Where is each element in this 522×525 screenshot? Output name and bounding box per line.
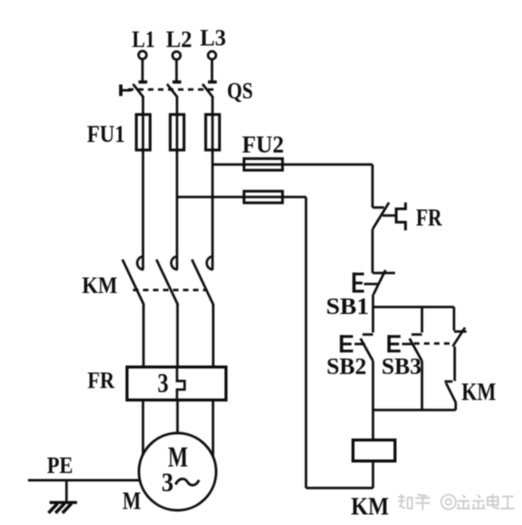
terminal L3 bbox=[208, 51, 216, 59]
coil KM bbox=[353, 440, 395, 461]
contactor auxiliary contact KM bbox=[445, 382, 457, 411]
switch QS handle bbox=[121, 85, 132, 97]
svg-text:PE: PE bbox=[47, 453, 73, 478]
terminal L2 bbox=[173, 52, 181, 60]
wire phase2 FU1 to KM bbox=[176, 150, 179, 270]
motor M circle bbox=[139, 433, 216, 510]
dashed mechanical link SB3 bbox=[414, 342, 451, 345]
thermal relay FR heater element bbox=[177, 367, 185, 400]
wire FU2 branch 1 bbox=[213, 163, 373, 166]
svg-text:FU1: FU1 bbox=[87, 122, 125, 148]
switch QS pole 1 bbox=[133, 82, 147, 115]
wire SB1 to branch node bbox=[372, 295, 375, 308]
wire FU2 branch 2 bbox=[177, 196, 306, 199]
thermal relay contact FR bbox=[373, 203, 406, 231]
svg-text:L3: L3 bbox=[200, 26, 226, 51]
pushbutton SB1 bbox=[353, 270, 396, 295]
wire phase3 FU1 to KM bbox=[211, 150, 214, 270]
svg-text:QS: QS bbox=[227, 79, 253, 104]
wire bottom return bbox=[306, 487, 373, 490]
svg-text:SB2: SB2 bbox=[327, 354, 367, 379]
pushbutton SB2 bbox=[340, 307, 373, 361]
ground bbox=[49, 480, 78, 513]
pushbutton SB3 bbox=[388, 307, 423, 361]
wire phase2 box to motor bbox=[176, 400, 179, 434]
fuse FU1 pole 3 bbox=[206, 115, 220, 151]
svg-text:L1: L1 bbox=[132, 27, 155, 52]
wire SB2 to coil bbox=[372, 361, 375, 440]
contactor KM pole 1 bbox=[122, 256, 144, 367]
svg-text:SB1: SB1 bbox=[326, 294, 369, 319]
wire bottom parallel join bbox=[373, 409, 456, 412]
switch QS pole 3 bbox=[203, 82, 217, 115]
watermark 知乎 @点点电工 bbox=[398, 494, 515, 510]
terminal L1 bbox=[139, 51, 147, 59]
svg-text:FR: FR bbox=[88, 368, 115, 393]
svg-text:FU2: FU2 bbox=[242, 133, 284, 159]
switch QS dashed linkage bbox=[128, 88, 218, 91]
svg-text:SB3: SB3 bbox=[382, 354, 422, 379]
wire phase1 FU1 to KM bbox=[142, 150, 145, 270]
switch QS pole 2 bbox=[167, 82, 181, 115]
svg-text:KM: KM bbox=[462, 379, 497, 406]
svg-text:KM: KM bbox=[351, 494, 389, 521]
wire coil to return bbox=[372, 461, 375, 488]
wire SB3 lower bbox=[421, 361, 424, 410]
wire phase3 box to motor bbox=[212, 400, 215, 457]
wire L3 stub bbox=[211, 59, 214, 80]
wire control hot down to FR bbox=[371, 165, 374, 208]
svg-text:3: 3 bbox=[162, 468, 174, 497]
thermal relay FR heater box bbox=[127, 367, 226, 400]
svg-text:FR: FR bbox=[416, 206, 443, 232]
wire FR to SB1 bbox=[371, 229, 374, 273]
wire PE bbox=[28, 479, 140, 482]
wire phase1 box to motor bbox=[142, 400, 145, 455]
contactor KM pole 2 bbox=[156, 256, 178, 367]
pushbutton SB3 NC contact bbox=[453, 307, 467, 347]
svg-text:L2: L2 bbox=[166, 27, 192, 52]
wire L2 stub bbox=[175, 59, 178, 80]
wire NC to KM aux bbox=[453, 347, 456, 382]
fuse FU2 lower bbox=[244, 191, 283, 203]
svg-text:3: 3 bbox=[158, 368, 169, 398]
fuse FU2 upper bbox=[244, 159, 283, 171]
wire branch horizontal bbox=[373, 306, 454, 309]
svg-text:KM: KM bbox=[82, 273, 118, 298]
contactor KM dashed linkage bbox=[133, 289, 207, 292]
wire left return vertical bbox=[305, 197, 308, 488]
fuse FU1 pole 1 bbox=[136, 115, 150, 151]
fuse FU1 pole 2 bbox=[170, 115, 184, 151]
contactor KM pole 3 bbox=[192, 256, 214, 367]
wire L1 stub bbox=[141, 59, 144, 81]
svg-text:M: M bbox=[123, 488, 142, 515]
